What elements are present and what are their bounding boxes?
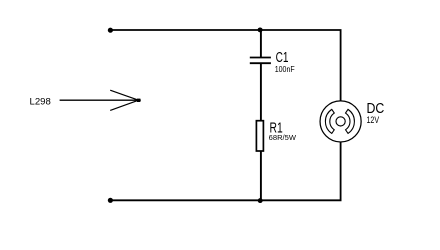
svg-text:L298: L298: [30, 96, 51, 106]
svg-text:100nF: 100nF: [275, 65, 295, 74]
svg-text:12V: 12V: [367, 115, 380, 125]
svg-text:68R/5W: 68R/5W: [269, 133, 296, 142]
svg-text:C1: C1: [276, 50, 289, 66]
